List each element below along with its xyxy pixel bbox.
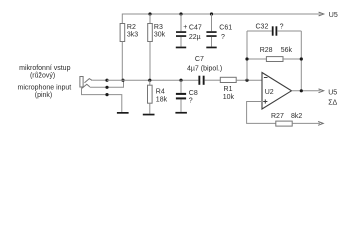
ground (C8) xyxy=(175,112,187,114)
svg-text:R3: R3 xyxy=(154,24,163,31)
ground (R4) xyxy=(143,114,155,116)
label: mikrofonni vstup (text block) xyxy=(18,65,72,99)
wire: mic signal rail xyxy=(107,79,198,81)
svg-text:U5: U5 xyxy=(328,89,337,96)
svg-text:10k: 10k xyxy=(223,94,235,101)
arrow to U5 (output) xyxy=(319,89,324,93)
jack tip contact (chevron) xyxy=(85,79,93,83)
node: C8 junction xyxy=(179,79,182,82)
jack ring contact (chevron) xyxy=(82,84,90,88)
svg-text:C47: C47 xyxy=(189,24,202,31)
node: output xyxy=(300,89,303,92)
jack J1: plug body xyxy=(80,77,83,88)
svg-text:R4: R4 xyxy=(156,89,165,96)
ground (C47) xyxy=(176,47,186,49)
wire: ring to node and up to tip line xyxy=(90,80,124,87)
svg-text:22µ: 22µ xyxy=(189,34,201,41)
node: R28 left xyxy=(245,57,248,60)
wire: R27 to arrow xyxy=(292,122,320,124)
svg-text:18k: 18k xyxy=(156,96,168,103)
resistor R28 56k (feedback) xyxy=(247,47,301,62)
svg-text:C8: C8 xyxy=(189,90,198,97)
resistor R2 3k3 xyxy=(120,24,138,81)
node: tip xyxy=(105,79,108,82)
svg-text:C61: C61 xyxy=(219,24,232,31)
svg-text:R1: R1 xyxy=(224,86,233,93)
svg-text:4µ7 (bipol.): 4µ7 (bipol.) xyxy=(187,66,222,73)
ground (jack sleeve) xyxy=(117,112,129,114)
svg-text:microphone input: microphone input xyxy=(18,84,72,91)
svg-text:?: ? xyxy=(221,34,225,41)
svg-text:8k2: 8k2 xyxy=(291,113,302,120)
svg-text:?: ? xyxy=(280,23,284,30)
svg-text:56k: 56k xyxy=(281,47,293,54)
op-amp U2 xyxy=(262,73,292,110)
capacitor C61 ? xyxy=(206,14,232,47)
wire: feedback right vertical xyxy=(300,31,302,91)
svg-text:30k: 30k xyxy=(154,32,166,39)
resistor R4 18k xyxy=(148,80,168,114)
node: top rail / R3 xyxy=(148,12,151,15)
svg-text:C32: C32 xyxy=(256,23,269,30)
svg-text:+: + xyxy=(183,24,187,31)
jack sleeve contact xyxy=(82,87,122,112)
svg-text:R28: R28 xyxy=(260,47,273,54)
node: top rail / C61 xyxy=(210,12,213,15)
capacitor C47 22µ (electrolytic) xyxy=(176,14,202,47)
capacitor C7 4µ7 bipolar (series) xyxy=(187,56,222,85)
svg-text:?: ? xyxy=(189,98,193,105)
node: top rail / C47 xyxy=(179,12,182,15)
node: R3/R4 junction xyxy=(148,79,151,82)
svg-text:(růžový): (růžový) xyxy=(30,71,55,79)
resistor R3 30k xyxy=(148,14,166,80)
node: tip/ring/R2 junction xyxy=(121,79,124,82)
wire: C7 to R1 xyxy=(205,79,221,81)
svg-text:ΣΔ: ΣΔ xyxy=(328,99,337,106)
node: sleeve xyxy=(105,93,108,96)
wire: non-inverting input to R27 xyxy=(247,102,276,124)
svg-text:U2: U2 xyxy=(265,89,274,96)
node: inverting input / feedback xyxy=(245,79,248,82)
wire: tip to node xyxy=(92,79,107,81)
wire: output xyxy=(292,90,321,92)
resistor R1 10k xyxy=(220,77,236,101)
svg-text:R2: R2 xyxy=(127,24,136,31)
svg-text:3k3: 3k3 xyxy=(127,32,138,39)
svg-text:C7: C7 xyxy=(195,56,204,63)
svg-text:U5: U5 xyxy=(329,12,338,19)
node: R28 right xyxy=(300,57,303,60)
node: ring xyxy=(105,86,108,89)
ground (C61) xyxy=(206,47,216,49)
arrow (bottom right) xyxy=(318,122,323,126)
resistor R27 8k2 xyxy=(271,113,302,126)
capacitor C32 ? (feedback) xyxy=(247,23,301,35)
svg-text:(pink): (pink) xyxy=(35,92,53,99)
svg-text:mikrofonní vstup: mikrofonní vstup xyxy=(19,65,70,72)
capacitor C8 ? xyxy=(176,80,198,112)
svg-text:R27: R27 xyxy=(271,113,284,120)
wire: R1 to inverting input xyxy=(236,79,262,81)
wire: feedback left vertical xyxy=(246,31,248,80)
arrow to U5 (top right) xyxy=(319,12,324,16)
wire: top supply rail xyxy=(122,14,320,24)
